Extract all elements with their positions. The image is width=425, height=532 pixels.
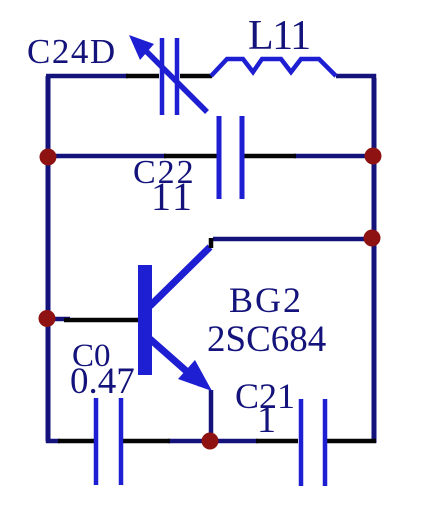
wire top-left horizontal (corner to C24D pin) bbox=[46, 74, 128, 79]
svg-text:11: 11 bbox=[151, 174, 195, 219]
node junction dot left base bbox=[39, 310, 56, 327]
wire emitter vertical (arrow tip down to bottom node) bbox=[209, 390, 214, 441]
label L11 bbox=[248, 13, 310, 59]
wire right vertical (top-right corner to bottom-right corner) bbox=[372, 78, 377, 443]
capacitor C22 plates bbox=[219, 116, 242, 199]
wire C22 row right (C22 pin to right node) bbox=[294, 154, 373, 159]
svg-text:BG2: BG2 bbox=[229, 280, 303, 320]
label C24D bbox=[27, 32, 117, 71]
label C22 bbox=[133, 154, 196, 191]
svg-text:0.47: 0.47 bbox=[70, 361, 135, 402]
inductor L11 coil bbox=[211, 59, 336, 76]
wire left vertical (net from top-left corner down to bottom-left corner) bbox=[46, 76, 51, 441]
transistor BG2 base bar bbox=[138, 265, 152, 375]
pin C21 left black lead bbox=[256, 439, 298, 444]
capacitor C21 plates bbox=[301, 399, 325, 486]
node junction dot left upper bbox=[40, 149, 57, 166]
node junction dot bottom emitter bbox=[202, 433, 219, 450]
label C0 value 0.47 bbox=[70, 361, 135, 402]
pin C21 right black lead bbox=[326, 439, 376, 444]
svg-text:1: 1 bbox=[257, 399, 276, 441]
svg-text:L11: L11 bbox=[248, 13, 310, 59]
pin base black lead bbox=[64, 318, 139, 323]
pin C22 left black lead bbox=[164, 154, 217, 159]
label 2SC684 bbox=[207, 319, 326, 360]
wire C22 row left (left node to C22 pin) bbox=[48, 154, 166, 159]
svg-text:2SC684: 2SC684 bbox=[207, 319, 326, 360]
pin collector black stub bbox=[209, 238, 214, 248]
pin C0 left black lead bbox=[58, 439, 94, 444]
label C21 bbox=[235, 376, 295, 416]
pin C0 right black lead bbox=[123, 439, 170, 444]
capacitor C24D adjustment arrow bbox=[129, 35, 207, 112]
wire collector row (collector pin to right node) bbox=[213, 237, 372, 242]
label C22 value 11 bbox=[151, 174, 195, 219]
wire top-right horizontal (L11 to top-right corner) bbox=[336, 76, 374, 80]
pin C24D left black lead bbox=[126, 74, 159, 79]
wire bottom left corner stub bbox=[48, 439, 60, 441]
transistor BG2 collector stroke bbox=[150, 247, 210, 306]
capacitor C24D variable capacitor plates bbox=[162, 38, 177, 115]
label C21 value 1 bbox=[257, 399, 276, 441]
svg-text:C24D: C24D bbox=[27, 32, 117, 71]
capacitor C0 plates bbox=[96, 398, 121, 485]
label BG2 bbox=[229, 280, 303, 320]
node junction dot right collector bbox=[364, 230, 381, 247]
wire bottom middle (C0 pin to bottom node to C21 pin) bbox=[168, 439, 258, 444]
transistor BG2 emitter stroke with arrow bbox=[150, 339, 212, 391]
pin C22 right black lead bbox=[244, 154, 296, 159]
wire base row navy stub (left node to base pin) bbox=[48, 317, 70, 322]
node junction dot right upper bbox=[365, 148, 382, 165]
pin C24D right black lead bbox=[180, 74, 212, 79]
label C0 bbox=[72, 338, 111, 374]
